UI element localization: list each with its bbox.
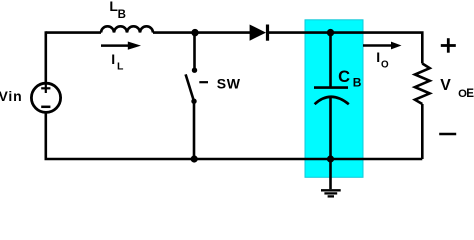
wire junction to capacitor top plate bbox=[329, 33, 332, 88]
svg-text:C: C bbox=[338, 68, 350, 86]
wire source bottom vertical bbox=[44, 113, 47, 160]
label V_OB bbox=[440, 77, 474, 100]
wire left vertical (source top) bbox=[44, 31, 47, 82]
svg-text:B: B bbox=[118, 9, 126, 21]
wire resistor to bottom rail bbox=[421, 104, 424, 159]
switch SW bbox=[186, 68, 208, 104]
wire diode to output corner bbox=[266, 33, 422, 64]
label I_L bbox=[111, 51, 124, 72]
current arrow I_L bbox=[101, 42, 141, 50]
wire capacitor bottom to rail bbox=[329, 97, 332, 159]
svg-text:Vin: Vin bbox=[0, 88, 22, 104]
label C_B bbox=[338, 68, 362, 90]
label minus bbox=[439, 133, 456, 136]
svg-text:B: B bbox=[353, 76, 362, 90]
wire bottom horizontal bbox=[45, 158, 423, 161]
wire top-left segment bbox=[46, 31, 101, 34]
resistor R_load bbox=[415, 64, 430, 105]
svg-text:I: I bbox=[111, 51, 115, 67]
label Vin bbox=[0, 88, 22, 104]
node B capacitor-top junction bbox=[327, 29, 334, 36]
wire coil to diode bbox=[153, 31, 251, 34]
voltage source Vin bbox=[31, 83, 60, 112]
svg-text:L: L bbox=[117, 60, 124, 72]
svg-text:V: V bbox=[440, 77, 451, 94]
node A switch-top junction bbox=[191, 29, 198, 36]
wire junction to switch top bbox=[193, 33, 196, 68]
svg-text:SW: SW bbox=[217, 76, 241, 92]
capacitor C_B bbox=[314, 88, 349, 105]
svg-text:O: O bbox=[381, 60, 389, 71]
current arrow I_O bbox=[363, 42, 402, 50]
highlight box around C_B bbox=[305, 20, 363, 178]
label SW bbox=[217, 76, 241, 92]
wire switch bottom to rail bbox=[193, 101, 196, 159]
diode D1 bbox=[250, 25, 268, 41]
node D capacitor-bottom junction bbox=[327, 155, 334, 162]
label plus bbox=[441, 38, 456, 53]
node C switch-bottom junction bbox=[191, 155, 198, 162]
ground bbox=[321, 159, 341, 196]
label I_O bbox=[376, 49, 389, 70]
label L_B bbox=[109, 0, 126, 21]
svg-text:I: I bbox=[376, 49, 380, 65]
inductor L_B bbox=[101, 26, 153, 32]
svg-text:E: E bbox=[466, 87, 474, 100]
